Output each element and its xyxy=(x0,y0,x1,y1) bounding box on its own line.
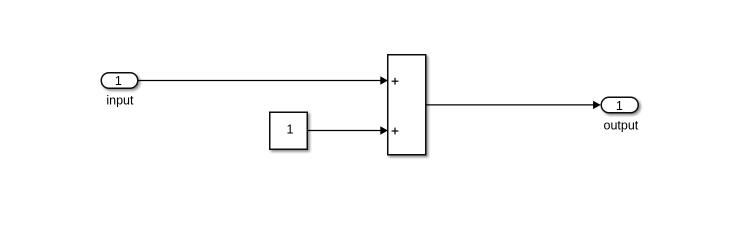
svg-text:1: 1 xyxy=(115,74,122,88)
svg-text:1: 1 xyxy=(616,99,623,113)
svg-text:input: input xyxy=(106,94,134,108)
svg-text:output: output xyxy=(604,119,639,133)
svg-text:1: 1 xyxy=(287,123,294,137)
